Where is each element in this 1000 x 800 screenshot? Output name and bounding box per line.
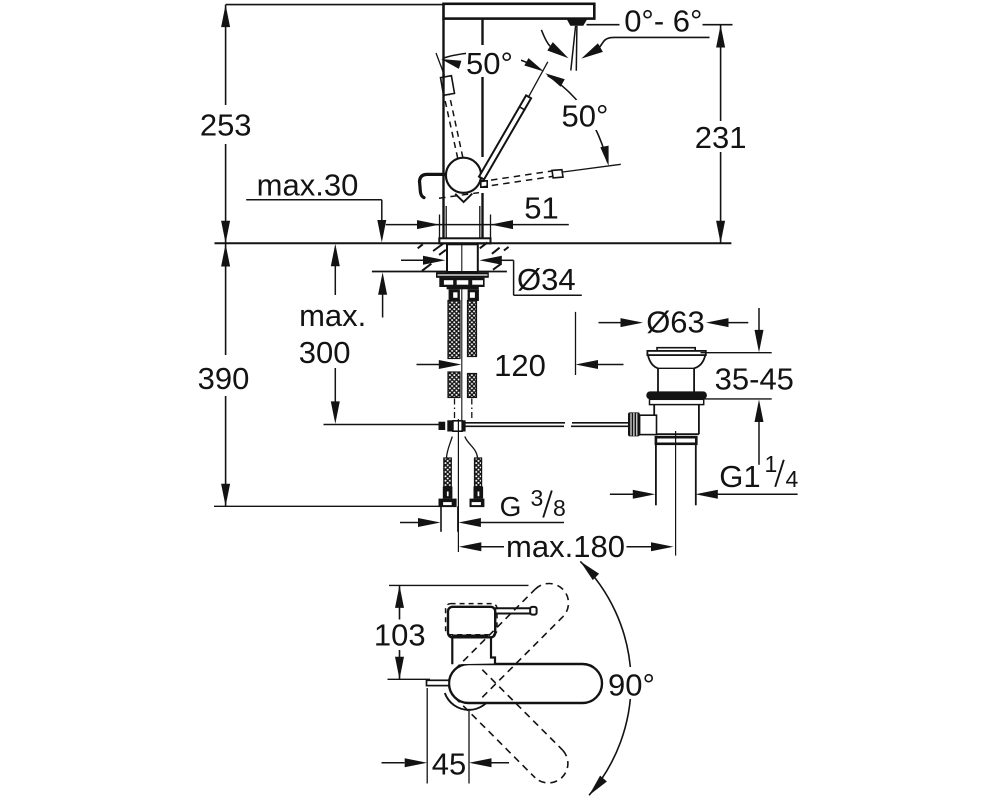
handle dashed outline — [446, 604, 497, 635]
dim diam63 — [599, 318, 749, 327]
label 50 deg lower — [561, 99, 614, 134]
faucet body inner lines — [446, 206, 480, 239]
svg-text:max.30: max.30 — [257, 168, 359, 203]
rod pin plan — [427, 680, 450, 685]
stud link curves — [447, 437, 478, 458]
max30 leader — [246, 200, 387, 318]
dim max180 — [459, 542, 674, 551]
neck plan — [452, 637, 495, 665]
dim 3545 bottom — [696, 399, 772, 465]
base flange — [439, 238, 490, 243]
hose left upper — [448, 301, 460, 359]
dim G38 — [400, 518, 564, 527]
drain collar band — [650, 399, 704, 404]
hose nuts — [449, 289, 479, 301]
drain o-ring — [646, 391, 707, 399]
drain cap knob — [657, 348, 695, 351]
drain centerline — [675, 431, 677, 556]
lever plan — [495, 608, 531, 613]
mounting washer — [436, 272, 489, 278]
dim 120 — [417, 312, 624, 375]
spout bar — [444, 4, 595, 19]
faucet body right edge — [481, 19, 483, 239]
label 390 — [198, 361, 250, 396]
svg-text:390: 390 — [198, 361, 250, 396]
svg-text:0°- 6°: 0°- 6° — [624, 4, 702, 39]
svg-text:3: 3 — [531, 485, 544, 511]
hose right lower — [468, 374, 477, 398]
spray arc right leader — [581, 37, 709, 58]
lever plan tip — [530, 607, 536, 615]
label 120 — [494, 348, 546, 383]
rod port knob — [628, 412, 640, 436]
arc 50 lower — [545, 73, 608, 166]
drain body — [654, 405, 699, 435]
stud right — [474, 458, 484, 499]
label 231 — [695, 120, 747, 155]
label G114 — [719, 451, 798, 494]
dim diam34 — [401, 256, 582, 295]
svg-text:4: 4 — [786, 466, 799, 492]
drain tailpipe — [656, 444, 696, 506]
dashed spout down — [455, 670, 568, 783]
dimension 253 vertical line — [221, 5, 230, 244]
dashed lever up — [436, 53, 463, 158]
hose left lower — [448, 372, 460, 398]
label max180 — [506, 529, 625, 564]
label max30 — [257, 168, 359, 203]
label 90deg — [604, 667, 661, 703]
drain flange ring — [656, 437, 696, 444]
rod reference line — [324, 424, 439, 426]
countertop hatching — [418, 242, 509, 270]
arc 90deg — [580, 561, 631, 795]
svg-text:max.180: max.180 — [506, 529, 625, 564]
dim 253 top extension line — [226, 4, 444, 6]
handle plan thick bottom — [452, 635, 488, 638]
drain cap flare — [648, 355, 705, 368]
stud left — [443, 458, 453, 499]
dim 51 line — [386, 220, 569, 229]
stud left foot — [439, 499, 457, 508]
line under 0-6 label — [587, 24, 733, 26]
aerator — [567, 19, 588, 26]
rod port collar — [640, 415, 657, 434]
label 103 — [374, 618, 426, 653]
label 3545 — [715, 362, 794, 397]
center line below coupling — [457, 419, 459, 552]
svg-text:35-45: 35-45 — [715, 362, 794, 397]
svg-text:G: G — [500, 491, 522, 522]
label G38 — [500, 485, 566, 522]
dim 390 bottom reference — [214, 505, 453, 507]
label 253 — [200, 107, 252, 142]
shank — [447, 244, 478, 272]
spray arc left — [541, 30, 568, 58]
dashed lever down — [439, 164, 621, 198]
supply pipe end — [441, 506, 458, 531]
faucet centerline — [461, 244, 463, 420]
svg-text:Ø63: Ø63 — [646, 305, 705, 340]
hose right upper — [468, 301, 477, 357]
svg-text:300: 300 — [299, 335, 351, 370]
label 51 — [524, 191, 558, 226]
label max300 — [299, 298, 367, 370]
countertop top line — [215, 242, 732, 244]
dim 51 extension lines — [440, 215, 491, 242]
escutcheon circle — [445, 693, 493, 710]
solid lever — [479, 62, 548, 180]
dim 103 top reference — [389, 584, 529, 586]
label diam34 — [517, 262, 576, 297]
label 45 — [432, 747, 466, 782]
drain cap plate — [647, 351, 705, 355]
notch under ball — [455, 194, 472, 202]
svg-text:50°: 50° — [562, 99, 609, 134]
label 50 deg upper — [466, 46, 521, 81]
dim 3545 top — [701, 308, 772, 353]
dimension 390 vertical line — [221, 243, 230, 506]
rod coupling — [439, 420, 466, 431]
svg-text:103: 103 — [374, 618, 426, 653]
drain neck — [658, 368, 694, 391]
svg-text:231: 231 — [695, 120, 747, 155]
ball joint — [446, 158, 481, 193]
svg-text:G1: G1 — [719, 459, 760, 494]
label diam63 — [646, 305, 705, 340]
faucet body left edge — [442, 19, 444, 239]
dim 45 line — [382, 758, 510, 767]
dim G114 — [610, 490, 798, 499]
svg-text:253: 253 — [200, 107, 252, 142]
svg-text:1: 1 — [765, 451, 778, 477]
svg-text:45: 45 — [432, 747, 466, 782]
arc 50 upper — [441, 53, 544, 72]
svg-text:50°: 50° — [466, 46, 513, 81]
svg-text:51: 51 — [524, 191, 558, 226]
svg-text:90°: 90° — [608, 668, 655, 703]
dim 45 ext lines — [427, 688, 469, 784]
water stream lines — [571, 26, 577, 71]
rod knob ridges — [631, 413, 637, 436]
dim 103 bottom reference — [388, 678, 431, 680]
handle hook — [420, 174, 445, 197]
spout plan — [449, 664, 602, 703]
lever pivot square — [481, 181, 487, 187]
svg-text:8: 8 — [553, 495, 566, 521]
svg-text:max.: max. — [299, 298, 366, 333]
hose centerline tails — [455, 399, 472, 421]
dimension 103 vertical — [395, 585, 404, 679]
dashed spout up — [455, 583, 569, 697]
countertop bottom line — [372, 271, 507, 273]
mounting nut — [439, 278, 484, 290]
svg-text:120: 120 — [494, 348, 546, 383]
label 0-6 deg — [624, 4, 702, 39]
stud right foot — [470, 499, 485, 508]
handle plan — [448, 607, 495, 638]
pop-up rod — [466, 423, 629, 427]
svg-text:Ø34: Ø34 — [517, 262, 576, 297]
dimension 231 vertical line — [716, 25, 725, 243]
dim max300 — [331, 244, 340, 424]
